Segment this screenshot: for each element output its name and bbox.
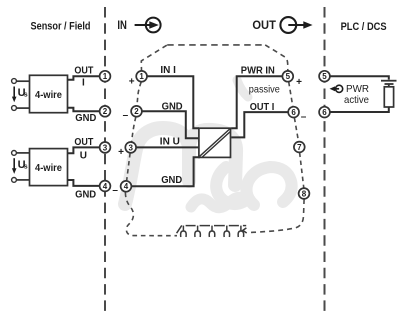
svg-text:2: 2 xyxy=(134,107,139,116)
device outline bottom left xyxy=(125,193,177,236)
wire PWR IN xyxy=(231,76,282,128)
svg-text:OUT: OUT xyxy=(74,66,93,77)
svg-text:OUT: OUT xyxy=(74,137,93,148)
svg-text:IN U: IN U xyxy=(160,137,180,148)
device outline link c6-c7 xyxy=(294,118,298,142)
isolator U1 xyxy=(199,128,231,157)
svg-text:PWR: PWR xyxy=(346,84,369,95)
wire load to terminal6 xyxy=(330,107,389,112)
zone separator left xyxy=(104,7,106,312)
wire GND sensor1 to terminal 2 xyxy=(68,108,100,112)
wire IN I xyxy=(147,76,199,128)
PWR direction icon xyxy=(330,85,343,92)
sensor 2 terminal + xyxy=(12,151,17,156)
wire terminal5 to supply xyxy=(330,76,389,79)
wire GND terminal4 to isolator xyxy=(131,157,200,186)
terminal 5 (zone right) xyxy=(319,71,330,82)
device outline bottom right xyxy=(249,199,305,233)
device outline link c2-c3 xyxy=(132,117,136,142)
OUT flow icon xyxy=(252,17,312,33)
device terminal 6 xyxy=(288,107,299,118)
svg-text:GND: GND xyxy=(162,101,183,112)
IN flow icon xyxy=(117,18,160,33)
voltage source Us (sensor 2) xyxy=(12,158,28,174)
svg-text:Sensor / Field: Sensor / Field xyxy=(31,21,91,33)
wire sensor1 bottom xyxy=(17,107,30,109)
device outline link c7-c8 xyxy=(300,153,304,189)
svg-text:–: – xyxy=(301,112,307,123)
svg-text:4-wire: 4-wire xyxy=(35,90,62,101)
load resistor xyxy=(384,84,393,107)
device terminal 4 xyxy=(121,181,132,192)
sensor 1 terminal - xyxy=(12,106,17,111)
wire sensor2 top xyxy=(17,152,30,154)
svg-text:4: 4 xyxy=(103,182,108,191)
svg-text:8: 8 xyxy=(302,189,307,198)
voltage source Us (sensor 1) xyxy=(12,87,28,103)
device outline right chamfer xyxy=(265,45,288,71)
terminal 4 (zone) xyxy=(100,181,111,192)
svg-text:PLC / DCS: PLC / DCS xyxy=(341,21,387,33)
svg-text:3: 3 xyxy=(103,143,108,152)
terminal 6 (zone right) xyxy=(319,107,330,118)
DIN rail feet xyxy=(177,225,247,237)
wire GND sensor2 to terminal 4 xyxy=(68,180,100,186)
wire OUT I xyxy=(231,112,288,137)
svg-text:s: s xyxy=(24,92,28,99)
device outline left chamfer xyxy=(141,45,167,70)
sensor 2 terminal - xyxy=(12,178,17,183)
svg-text:GND: GND xyxy=(75,190,96,201)
device terminal 8 xyxy=(299,188,310,199)
watermark xyxy=(125,80,292,208)
terminal 2 (zone) xyxy=(100,106,111,117)
svg-text:U: U xyxy=(80,150,87,161)
svg-text:7: 7 xyxy=(297,143,302,152)
svg-text:GND: GND xyxy=(161,175,182,186)
wire OUT U sensor2 to terminal 3 xyxy=(68,147,100,153)
svg-text:IN: IN xyxy=(117,18,127,32)
wire sensor1 top xyxy=(17,80,30,82)
svg-text:6: 6 xyxy=(291,108,296,117)
svg-text:I: I xyxy=(82,78,85,89)
wire IN U xyxy=(136,146,199,148)
wire OUT I sensor1 to terminal 1 xyxy=(68,76,100,80)
zone separator right xyxy=(324,7,326,312)
device terminal 5 xyxy=(282,71,293,82)
4-wire transmitter block 1 xyxy=(30,75,68,112)
svg-text:3: 3 xyxy=(128,143,133,152)
svg-text:+: + xyxy=(118,147,124,158)
svg-text:4: 4 xyxy=(124,182,129,191)
device outline link c5-c6 xyxy=(289,82,293,107)
svg-text:PWR IN: PWR IN xyxy=(241,66,275,77)
svg-text:s: s xyxy=(24,164,28,171)
sensor 1 terminal + xyxy=(12,79,17,84)
device outline link c1-c2 xyxy=(137,82,141,106)
svg-text:IN I: IN I xyxy=(160,65,176,76)
svg-text:–: – xyxy=(112,185,118,196)
svg-text:OUT: OUT xyxy=(252,18,276,32)
device terminal 3 xyxy=(125,142,136,153)
svg-text:active: active xyxy=(344,95,369,106)
svg-text:1: 1 xyxy=(139,72,144,81)
svg-text:2: 2 xyxy=(103,107,108,116)
svg-text:–: – xyxy=(123,110,129,121)
svg-text:OUT I: OUT I xyxy=(250,102,275,113)
4-wire transmitter block 2 xyxy=(30,149,68,186)
svg-text:GND: GND xyxy=(75,113,96,124)
svg-text:5: 5 xyxy=(286,72,291,81)
terminal 1 (zone) xyxy=(100,71,111,82)
device terminal 2 xyxy=(131,106,142,117)
device terminal 1 xyxy=(136,71,147,82)
device outline top edge xyxy=(167,44,265,46)
terminal 3 (zone) xyxy=(100,142,111,153)
wire GND terminal2 to isolator xyxy=(142,111,199,138)
svg-text:4-wire: 4-wire xyxy=(35,163,62,174)
svg-text:1: 1 xyxy=(103,72,108,81)
svg-text:5: 5 xyxy=(322,72,327,81)
svg-text:+: + xyxy=(296,77,302,88)
svg-text:passive: passive xyxy=(249,85,280,96)
svg-text:+: + xyxy=(129,77,135,88)
svg-text:6: 6 xyxy=(322,108,327,117)
device outline link c3-c4 xyxy=(127,153,131,181)
device terminal 7 xyxy=(294,142,305,153)
supply battery symbol xyxy=(381,81,397,84)
wire sensor2 bottom xyxy=(17,179,30,181)
